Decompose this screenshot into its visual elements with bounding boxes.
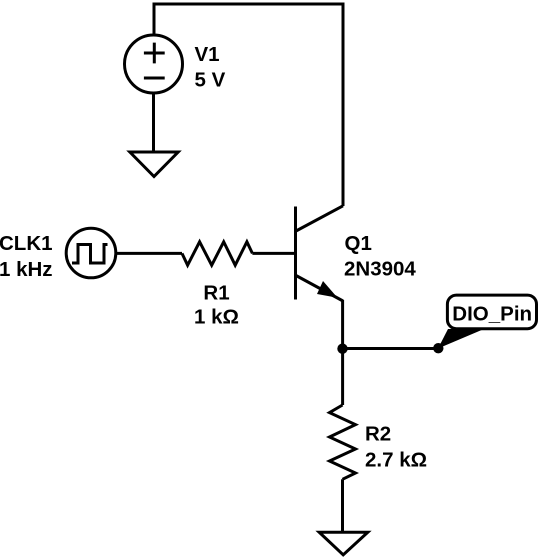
ground (below R2) [319,532,368,555]
wire V1 to ground [152,93,155,151]
transistor Q1 base bar [294,207,297,300]
ground (below V1) [130,152,178,177]
wire node to DIO pin [343,347,439,350]
DIO_Pin callout box [447,295,536,329]
svg-text:DIO_Pin: DIO_Pin [452,303,532,326]
Q1 emitter arrow [317,281,338,298]
wire R1 to Q1 base [252,252,295,255]
svg-text:R1: R1 [203,281,229,304]
wire top rail [153,3,344,6]
svg-text:Q1: Q1 [345,232,372,255]
wire V1 top to rail [153,4,156,35]
node junction dot (emitter/R2/DIO) [337,344,347,354]
svg-text:V1: V1 [195,43,220,66]
svg-text:2N3904: 2N3904 [344,258,416,281]
Q1 emitter diagonal [296,276,343,302]
V1 minus sign [144,77,165,80]
resistor R1 [182,242,252,265]
wire CLK1 to R1 [116,252,182,255]
Q1 collector diagonal [296,206,343,231]
wire R2 to ground [341,479,344,531]
node dot at DIO pin [433,343,443,353]
svg-text:1 kΩ: 1 kΩ [194,306,239,329]
DIO_Pin callout pointer wedge [438,329,484,349]
svg-text:R2: R2 [365,423,391,446]
CLK1 square-wave symbol [72,245,108,264]
voltage source V1 [125,35,183,93]
resistor R2 [330,405,356,479]
svg-text:1 kHz: 1 kHz [0,258,53,281]
wire rail down to Q1 collector [342,3,345,207]
clock source CLK1 [66,228,116,278]
svg-text:5 V: 5 V [195,69,226,92]
V1 plus sign [144,43,165,64]
wire emitter to node [341,300,344,349]
svg-text:2.7 kΩ: 2.7 kΩ [365,449,427,472]
wire node down to R2 [341,349,344,405]
svg-text:CLK1: CLK1 [0,232,53,255]
